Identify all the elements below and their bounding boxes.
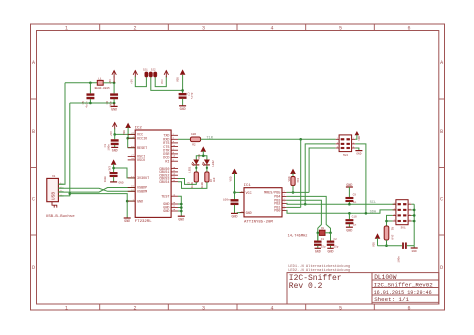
svg-text:TEST: TEST	[161, 195, 169, 199]
svg-text:6: 6	[407, 25, 410, 31]
svg-text:VDD: VDD	[229, 176, 232, 181]
svg-text:3: 3	[202, 25, 205, 31]
wire VDD rail to capacitor	[378, 245, 402, 247]
svg-text:+5V: +5V	[110, 131, 113, 136]
svg-text:VDD: VDD	[372, 242, 375, 247]
connector X1 shield pin	[52, 202, 57, 208]
junction TXD branch	[299, 138, 302, 141]
wire PB4 row to crystal right	[286, 196, 330, 240]
ground below C2	[327, 247, 333, 249]
ground below C4	[231, 212, 238, 214]
svg-text:3V3OUT: 3V3OUT	[137, 177, 149, 181]
supply VCC arrow	[164, 71, 168, 75]
LED LED1	[193, 160, 199, 165]
ground below C1	[315, 247, 321, 249]
svg-text:GND: GND	[137, 200, 143, 204]
IC2 right pin stubs and labels	[171, 134, 178, 136]
svg-text:A: A	[32, 60, 35, 66]
svg-text:100n: 100n	[398, 256, 401, 263]
supply VDD arrow at IC2	[125, 123, 131, 128]
ground at SV2 pin6	[355, 148, 359, 151]
junction +5V node	[113, 82, 116, 85]
wire PB1 row	[286, 206, 300, 208]
wire TXD to R2	[178, 138, 190, 140]
ground below C10	[346, 226, 353, 228]
svg-text:C1: C1	[321, 238, 325, 241]
svg-text:5: 5	[339, 305, 342, 311]
svg-text:+3V3: +3V3	[108, 166, 111, 173]
svg-text:A: A	[440, 60, 443, 66]
IC1 right pins	[282, 191, 286, 193]
svg-text:VDD: VDD	[198, 154, 201, 159]
svg-text:LED1: LED1	[189, 166, 192, 173]
IC2 left pin stubs and labels	[128, 133, 136, 135]
wire LED1 cathode to R3	[195, 165, 197, 172]
svg-text:GND: GND	[232, 215, 238, 219]
wire +5V to SJ1 left pad	[135, 77, 146, 87]
wire IC1 GND pin to ground	[237, 212, 244, 215]
SV2 left pin stubs	[336, 138, 339, 140]
svg-text:GND: GND	[163, 210, 169, 214]
junction R1 bottom	[385, 244, 388, 247]
svg-text:14,745MHz: 14,745MHz	[288, 235, 308, 239]
wire VDD arrow down to C7	[182, 75, 184, 93]
svg-text:1n: 1n	[353, 201, 357, 204]
wire TXD branch down to PB1 row	[300, 139, 302, 207]
svg-text:VCC: VCC	[246, 192, 252, 196]
svg-text:VCCIO: VCCIO	[137, 137, 147, 141]
svg-text:GND: GND	[111, 108, 117, 112]
svg-text:T1R: T1R	[206, 136, 213, 140]
svg-text:R4: R4	[210, 178, 213, 182]
wire CBUS4 to R4	[178, 182, 207, 189]
junction VDD tap	[181, 89, 184, 92]
svg-text:4: 4	[270, 305, 273, 311]
svg-text:R1: R1	[391, 227, 394, 231]
capacitor C7	[179, 93, 186, 95]
supply +3V3 arrow	[111, 159, 117, 164]
svg-text:Q1: Q1	[321, 227, 325, 230]
svg-text:USB-B-Buchse: USB-B-Buchse	[46, 214, 75, 219]
ground below C8	[110, 181, 117, 183]
ground at IC2 GND pin	[124, 217, 131, 219]
svg-text:RI: RI	[165, 160, 169, 164]
wire SV1 pin7 to pullup	[387, 220, 393, 222]
svg-text:OSCO: OSCO	[137, 159, 145, 163]
svg-text:C2: C2	[334, 238, 338, 241]
svg-text:SCL: SCL	[370, 201, 376, 205]
svg-text:CBUS4: CBUS4	[159, 181, 169, 185]
svg-text:SJ2: SJ2	[151, 68, 156, 71]
connector X1 USB-B body	[47, 178, 59, 201]
wire +5V to VCC pin	[115, 129, 136, 135]
connector SV2 body	[339, 135, 352, 152]
supply VDD arrow at SV2	[355, 131, 360, 135]
supply VDD arrow at LEDs	[201, 146, 207, 151]
svg-text:SDA: SDA	[370, 211, 377, 215]
svg-text:1k0: 1k0	[391, 235, 395, 240]
svg-text:100n: 100n	[104, 176, 107, 183]
wire VDD tap to IC1 VCC pin	[235, 191, 245, 193]
ground below C3	[111, 146, 118, 148]
svg-text:4: 4	[270, 25, 273, 31]
capacitor C1	[317, 233, 319, 241]
svg-text:10R: 10R	[191, 133, 196, 136]
frame outer border	[31, 24, 445, 310]
wire R2 to SV2 pin1	[201, 138, 336, 140]
svg-text:B: B	[440, 129, 443, 135]
svg-text:100n+: 100n+	[223, 198, 232, 201]
resistor R5	[290, 169, 296, 174]
wire SV1 pin5 to pullup	[387, 215, 393, 226]
svg-text:GND: GND	[356, 152, 361, 155]
svg-text:IC2: IC2	[135, 126, 143, 130]
wire L1 to +5V node	[103, 82, 114, 84]
supply +5V arrow top-left	[112, 71, 116, 75]
svg-text:USB: USB	[51, 192, 57, 201]
svg-text:4u7+: 4u7+	[190, 93, 193, 100]
svg-text:PB0: PB0	[274, 210, 280, 214]
svg-text:GND: GND	[346, 228, 352, 232]
svg-text:LED: LED	[213, 177, 216, 182]
svg-text:GND: GND	[124, 219, 130, 223]
ground below C6	[113, 103, 115, 106]
junction C5 bottom	[89, 102, 92, 105]
wire +3V3 to 3V3OUT pin	[113, 164, 115, 172]
svg-text:VCC: VCC	[161, 79, 164, 84]
junction C6 bottom	[113, 102, 116, 105]
wire SDA row PB0 to SV1	[286, 210, 396, 213]
svg-text:6: 6	[407, 305, 410, 311]
svg-text:SV1: SV1	[401, 226, 406, 229]
frame inner border	[37, 31, 439, 305]
svg-text:LED2: LED2	[212, 160, 215, 167]
connector SV1 body	[396, 200, 408, 225]
wire +5V node down to C6	[113, 83, 115, 94]
svg-text:2: 2	[133, 305, 136, 311]
svg-text:3: 3	[202, 305, 205, 311]
svg-text:VDD: VDD	[358, 136, 361, 141]
wire SJ1 right pad to VCC arrow	[155, 76, 166, 86]
wire MRES row	[286, 191, 309, 193]
wire capacitor to GND rail	[407, 245, 414, 247]
wire VDD to LED anodes	[202, 151, 204, 156]
svg-text:D: D	[32, 265, 35, 271]
wire SJ1 center pad to VDD node	[151, 77, 183, 90]
SV1 left pin stubs	[393, 203, 396, 205]
svg-text:C: C	[32, 197, 35, 203]
svg-text:GND: GND	[119, 182, 124, 185]
ferrite bead L1	[97, 80, 103, 85]
supply +5V arrow at jumper	[133, 71, 137, 75]
supply VDD arrow at IC1	[232, 169, 238, 174]
svg-text:VDD: VDD	[177, 77, 180, 82]
svg-text:15p: 15p	[321, 245, 326, 248]
svg-text:15p: 15p	[334, 245, 339, 248]
svg-text:4u7+: 4u7+	[86, 101, 89, 108]
svg-text:R2: R2	[192, 143, 196, 146]
wire cap bottom rail	[70, 102, 114, 104]
wire VBUS vertical to USB pin1	[58, 83, 65, 184]
svg-text:SJ1: SJ1	[143, 68, 148, 71]
IC IC2 FT232RL body	[135, 130, 171, 217]
capacitor C9	[348, 187, 350, 197]
svg-text:RESET: RESET	[137, 147, 147, 151]
title block divider	[371, 273, 373, 304]
IC1 left pins	[240, 191, 244, 193]
frame column ticks top and bottom	[99, 24, 101, 31]
junction IC1 VCC tap	[233, 191, 236, 194]
wire SV2 pin3 drop to SCL row	[305, 144, 336, 204]
svg-text:GND: GND	[178, 217, 184, 221]
ground below IC2 right GND pins	[178, 215, 185, 217]
svg-text:1: 1	[65, 305, 68, 311]
wire PB3 row to crystal left	[286, 200, 321, 241]
wire VBUS to L1	[65, 82, 97, 84]
wire USBDM twisted pair	[58, 188, 135, 193]
svg-text:BEAD-0805: BEAD-0805	[95, 87, 110, 90]
wire SCL row PB2 to SV1	[286, 202, 396, 205]
supply VDD arrow at SV1	[375, 233, 381, 238]
ground at SV1 rail	[413, 246, 415, 248]
svg-text:1k00: 1k00	[200, 182, 204, 189]
svg-text:GND: GND	[315, 250, 321, 254]
junction C3 tap	[113, 133, 116, 136]
svg-text:GND: GND	[180, 107, 186, 111]
svg-text:C7: C7	[186, 93, 189, 97]
svg-text:X1: X1	[52, 175, 56, 178]
svg-text:Rev 0.2: Rev 0.2	[289, 282, 323, 291]
svg-text:16.01.2015 19:29:46: 16.01.2015 19:29:46	[374, 290, 432, 296]
svg-text:GND: GND	[246, 212, 252, 216]
svg-text:2: 2	[133, 25, 136, 31]
svg-text:IC1: IC1	[244, 184, 252, 188]
svg-text:LED2..N Alternativbestückung: LED2..N Alternativbestückung	[288, 268, 350, 273]
capacitor C2	[330, 233, 332, 241]
svg-text:100n: 100n	[108, 144, 111, 151]
svg-text:GND: GND	[346, 183, 352, 187]
svg-text:+5V: +5V	[109, 79, 112, 84]
junction C9 on SCL row	[348, 203, 351, 206]
SV2 right pin stubs	[352, 138, 356, 140]
frame row ticks left and right	[31, 98, 37, 100]
connector X1 pin stubs	[58, 183, 63, 185]
wire LED2 cathode to R4	[206, 165, 208, 172]
svg-text:FT232RL: FT232RL	[135, 220, 152, 224]
svg-text:D: D	[440, 265, 443, 271]
svg-text:C9: C9	[353, 194, 357, 197]
IC IC1 ATTINY85-20M body	[244, 188, 282, 217]
junction LED feed	[202, 155, 205, 158]
SV1 right pin stubs	[408, 203, 411, 205]
wire USB GND to IC2 GND pin	[70, 194, 127, 218]
svg-text:SV2: SV2	[343, 154, 348, 157]
LED LED2	[204, 160, 210, 165]
svg-text:Sheet: 1/1: Sheet: 1/1	[374, 296, 409, 303]
wire GND vertical to USB pin4	[58, 103, 69, 196]
wire VCCIO to RESET tie	[128, 137, 136, 139]
wire USBDP twisted pair	[58, 188, 135, 191]
wire VDD to VCCIO pin	[128, 127, 135, 138]
svg-text:I2C_Sniffer_Rev02: I2C_Sniffer_Rev02	[374, 281, 434, 288]
junction C8 tap	[112, 167, 115, 170]
junction C5 tap	[89, 82, 92, 85]
resistor R1	[384, 226, 389, 240]
capacitor C10	[348, 212, 351, 215]
svg-text:10k: 10k	[296, 178, 300, 183]
svg-text:B: B	[32, 129, 35, 135]
svg-text:GND: GND	[412, 250, 417, 253]
svg-text:DL100W: DL100W	[374, 274, 397, 281]
ground below C7	[179, 105, 186, 107]
svg-text:+5V: +5V	[130, 79, 133, 84]
svg-text:USBDM: USBDM	[137, 191, 147, 195]
svg-text:GND: GND	[328, 250, 334, 254]
supply VDD arrow top	[180, 69, 186, 74]
capacitor C11	[402, 243, 404, 249]
wire TEST and GND pins to ground	[178, 196, 181, 216]
svg-text:C: C	[440, 197, 443, 203]
junction USB GND branch	[69, 192, 72, 195]
junction SV2-SDA	[365, 212, 368, 215]
wire SV2 pin4 to SDA bus	[355, 144, 366, 213]
svg-text:C10: C10	[352, 216, 357, 219]
wire VDD down to C4	[234, 173, 236, 199]
wire CBUS3 to R3	[178, 179, 196, 185]
svg-text:GND: GND	[112, 149, 118, 153]
title block outline	[287, 273, 439, 304]
svg-text:1: 1	[65, 25, 68, 31]
wire SV2 pin5 drop to MRES row	[309, 148, 336, 192]
svg-text:1n: 1n	[353, 224, 357, 227]
svg-text:5: 5	[339, 25, 342, 31]
wire SV1 right pins to GND rail	[411, 203, 414, 205]
junction R5 on MRES row	[292, 191, 295, 194]
supply +5V arrow at IC2	[113, 123, 117, 127]
svg-text:L1: L1	[98, 77, 102, 80]
svg-text:ATTINY85-20M: ATTINY85-20M	[244, 220, 273, 224]
svg-text:VDD: VDD	[123, 130, 126, 135]
